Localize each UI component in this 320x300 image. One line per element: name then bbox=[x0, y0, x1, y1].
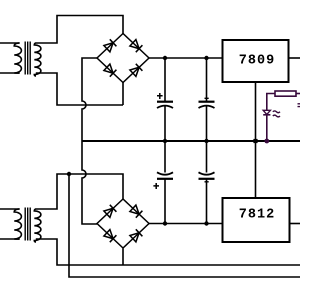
capacitor C1 plus mark bbox=[157, 93, 163, 99]
cropped mark at right edge bbox=[298, 104, 301, 107]
transformer T2 primary bottom wire bbox=[0, 238, 20, 240]
wire T2 secondary bottom to bottom line 1 bbox=[36, 239, 300, 265]
wire + rail top bbox=[149, 57, 223, 59]
transformer T1 secondary winding bbox=[34, 43, 41, 76]
diode D2 (top to right) bbox=[130, 40, 143, 53]
capacitor C1 plates bbox=[157, 101, 173, 103]
capacitor C4 top lead bbox=[206, 141, 208, 173]
node junction dot bbox=[264, 139, 269, 144]
capacitor C4 plates bbox=[199, 172, 215, 174]
transformer T2 core bbox=[25, 208, 30, 241]
capacitor C2 bottom lead bbox=[206, 106, 208, 141]
LED label approx mark bbox=[273, 111, 280, 117]
capacitor C4 bottom lead bbox=[206, 179, 208, 224]
diode D1 (left to top) bbox=[104, 39, 117, 52]
resistor R1 left lead bbox=[267, 94, 275, 111]
regulator gnd pin vertical (7809 down to 7812) bbox=[255, 82, 257, 198]
node junction dot bbox=[163, 139, 167, 143]
resistor R1 body bbox=[275, 91, 296, 96]
node junction dot bbox=[163, 221, 167, 225]
wire bridge1 minus to common rail (with two wire hops) bbox=[82, 58, 97, 224]
transformer T2 primary top wire bbox=[0, 208, 20, 210]
resistor R1 right lead bbox=[296, 93, 300, 95]
regulator U2 7812 box bbox=[223, 198, 290, 242]
capacitor C3 plates bbox=[157, 172, 173, 174]
bridge rectifier BR2 diamond bbox=[97, 199, 149, 248]
LED D9 bbox=[263, 110, 270, 114]
common ground rail bbox=[82, 140, 301, 142]
capacitor C3 plus mark bbox=[153, 183, 159, 189]
capacitor C3 top lead bbox=[164, 141, 166, 173]
wire + rail bottom bbox=[149, 223, 223, 225]
transformer T1 core bbox=[25, 42, 30, 75]
wire T2 secondary top to bridge2 AC top bbox=[36, 174, 123, 209]
svg-text:7812: 7812 bbox=[239, 207, 275, 222]
diode D3 (left to bottom) bbox=[104, 64, 117, 77]
diode D7 (left to bottom) bbox=[104, 230, 117, 243]
LED D9 cathode lead bbox=[266, 115, 268, 141]
node junction dot bbox=[204, 139, 208, 143]
capacitor C2 plates bbox=[199, 101, 215, 103]
transformer T1 primary top wire bbox=[0, 42, 20, 44]
node junction dot bbox=[204, 221, 208, 225]
capacitor C3 bottom lead bbox=[164, 179, 166, 224]
diode D6 (top to right) bbox=[130, 205, 143, 218]
transformer T1 primary bottom wire bbox=[0, 72, 20, 74]
capacitor C2 small mark bbox=[205, 97, 209, 99]
diode D8 (bottom to right) bbox=[130, 229, 143, 242]
wire bridge1 bottom vertex leg bbox=[122, 83, 124, 106]
node junction dot bbox=[204, 56, 208, 60]
wire secondary top to bridge AC top bbox=[36, 16, 123, 44]
capacitor C2 top lead bbox=[206, 58, 208, 101]
bridge rectifier BR1 diamond bbox=[97, 34, 149, 83]
wire secondary bottom to bridge AC bottom bbox=[36, 73, 123, 105]
transformer T2 secondary winding bbox=[34, 209, 41, 242]
wire from node to bottom line 2 bbox=[69, 174, 300, 277]
regulator U1 7809 box bbox=[223, 40, 289, 82]
node junction dot bbox=[163, 56, 167, 60]
node junction dot bbox=[253, 139, 257, 143]
diode D5 (left to top) bbox=[104, 205, 117, 218]
regulator U2 output wire bbox=[290, 223, 301, 225]
wire bridge2 bottom vertex leg bbox=[122, 249, 124, 266]
transformer T1 primary winding bbox=[14, 43, 21, 73]
svg-text:7809: 7809 bbox=[239, 54, 275, 69]
node junction dot bbox=[67, 172, 71, 176]
transformer T2 primary winding bbox=[14, 209, 21, 239]
regulator U1 output wire bbox=[289, 57, 301, 59]
capacitor C4 small mark bbox=[205, 181, 209, 183]
capacitor C1 top lead bbox=[164, 58, 166, 101]
capacitor C1 bottom lead bbox=[164, 106, 166, 141]
diode D4 (bottom to right) bbox=[130, 64, 143, 77]
